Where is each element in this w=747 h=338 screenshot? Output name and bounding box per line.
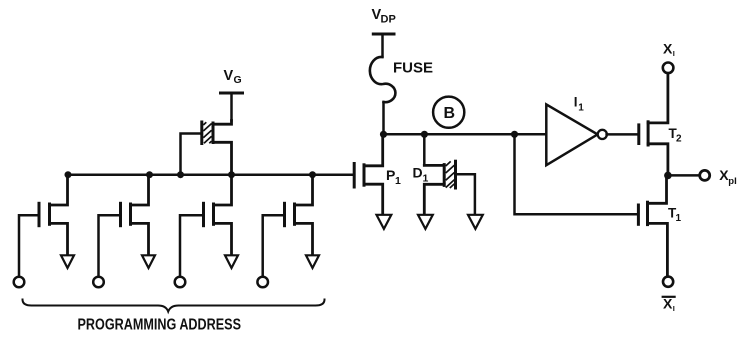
junction dots on node B	[380, 131, 518, 138]
svg-text:1: 1	[676, 213, 682, 224]
transistor T2	[639, 73, 668, 175]
overbar of Xi-bar label	[663, 296, 675, 298]
svg-text:1: 1	[395, 175, 401, 187]
label Xi	[663, 40, 675, 58]
svg-text:2: 2	[676, 134, 682, 145]
svg-text:1: 1	[578, 102, 584, 113]
input terminal circle (Q4 gate)	[257, 277, 268, 288]
drain wire from node B	[423, 134, 426, 165]
hatch	[446, 161, 455, 188]
svg-text:I: I	[574, 95, 578, 110]
gate bar	[200, 122, 203, 144]
svg-text:I: I	[673, 49, 675, 58]
input terminal circle (Q1 gate)	[14, 277, 25, 288]
terminal Xi	[663, 63, 674, 74]
node B circle label	[433, 97, 464, 128]
svg-text:I: I	[673, 304, 675, 313]
hatch	[203, 122, 211, 143]
gate bar	[454, 161, 457, 188]
channel bar	[212, 123, 215, 143]
source stub and wire to bus	[213, 142, 232, 174]
ground arrow (Q1 source)	[61, 255, 74, 268]
power VDP terminal	[373, 34, 394, 57]
depletion load transistor (VG load)	[181, 121, 232, 175]
svg-text:DP: DP	[381, 14, 396, 26]
top stub	[424, 164, 444, 167]
transistor T1	[638, 175, 667, 276]
channel bar	[443, 165, 446, 186]
gate lead to ground	[456, 174, 475, 214]
label D1	[413, 165, 429, 185]
address transistor Q1	[19, 175, 68, 277]
depletion transistor D1	[424, 134, 475, 214]
input terminal circle (Q3 gate)	[175, 277, 186, 288]
svg-text:PROGRAMMING ADDRESS: PROGRAMMING ADDRESS	[78, 317, 242, 334]
inverter I1	[546, 104, 607, 165]
svg-text:pI: pI	[728, 176, 736, 187]
terminal Xpi	[700, 170, 710, 180]
wire fuse to node	[382, 102, 385, 134]
svg-text:FUSE: FUSE	[393, 60, 433, 77]
address transistor Q4	[263, 175, 313, 277]
junction dots on bus	[65, 171, 317, 178]
junction dot T2/T1/Xpi	[664, 172, 672, 180]
svg-text:1: 1	[423, 173, 429, 185]
source stub and wire	[424, 184, 444, 214]
ground arrow (Q4 source)	[306, 255, 319, 268]
ground arrow (D1 source)	[418, 215, 433, 229]
wire inverter output to T2 gate	[607, 133, 638, 136]
label P1	[386, 167, 401, 187]
input terminal circle (Q2 gate)	[93, 277, 104, 288]
label VDP	[372, 7, 396, 26]
address transistor Q2	[99, 175, 149, 277]
label T2	[669, 126, 683, 145]
label Xpi	[719, 167, 736, 187]
fuse F	[370, 57, 396, 102]
label PROGRAMMING ADDRESS	[78, 317, 242, 334]
ground arrow (Q3 source)	[225, 255, 238, 268]
power VG terminal	[221, 93, 243, 121]
terminal Xi-bar	[663, 277, 673, 287]
svg-text:X: X	[663, 40, 673, 56]
label FUSE	[393, 60, 433, 77]
wire node B to T1 gate	[515, 134, 638, 214]
ground arrow (D1 gate)	[468, 215, 483, 229]
label I1	[574, 95, 585, 114]
label VG	[224, 68, 242, 86]
address transistor Q3	[180, 175, 232, 277]
svg-text:V: V	[224, 68, 234, 84]
svg-text:G: G	[234, 74, 242, 86]
label T1	[668, 206, 682, 225]
gate lead to bus	[181, 134, 202, 175]
bus wire (programming bus)	[68, 173, 354, 176]
ground arrow (Q2 source)	[142, 255, 155, 268]
label Xi-bar	[663, 296, 675, 314]
svg-text:B: B	[444, 105, 456, 122]
node B wire	[384, 133, 547, 136]
drain stub and wire to VG	[213, 121, 232, 125]
transistor P1	[354, 134, 383, 214]
svg-text:D: D	[413, 165, 423, 181]
ground arrow (P1 source)	[377, 215, 392, 229]
wire to Xpi terminal	[668, 174, 700, 177]
brace (programming address group)	[23, 300, 325, 312]
svg-text:P: P	[386, 167, 395, 183]
